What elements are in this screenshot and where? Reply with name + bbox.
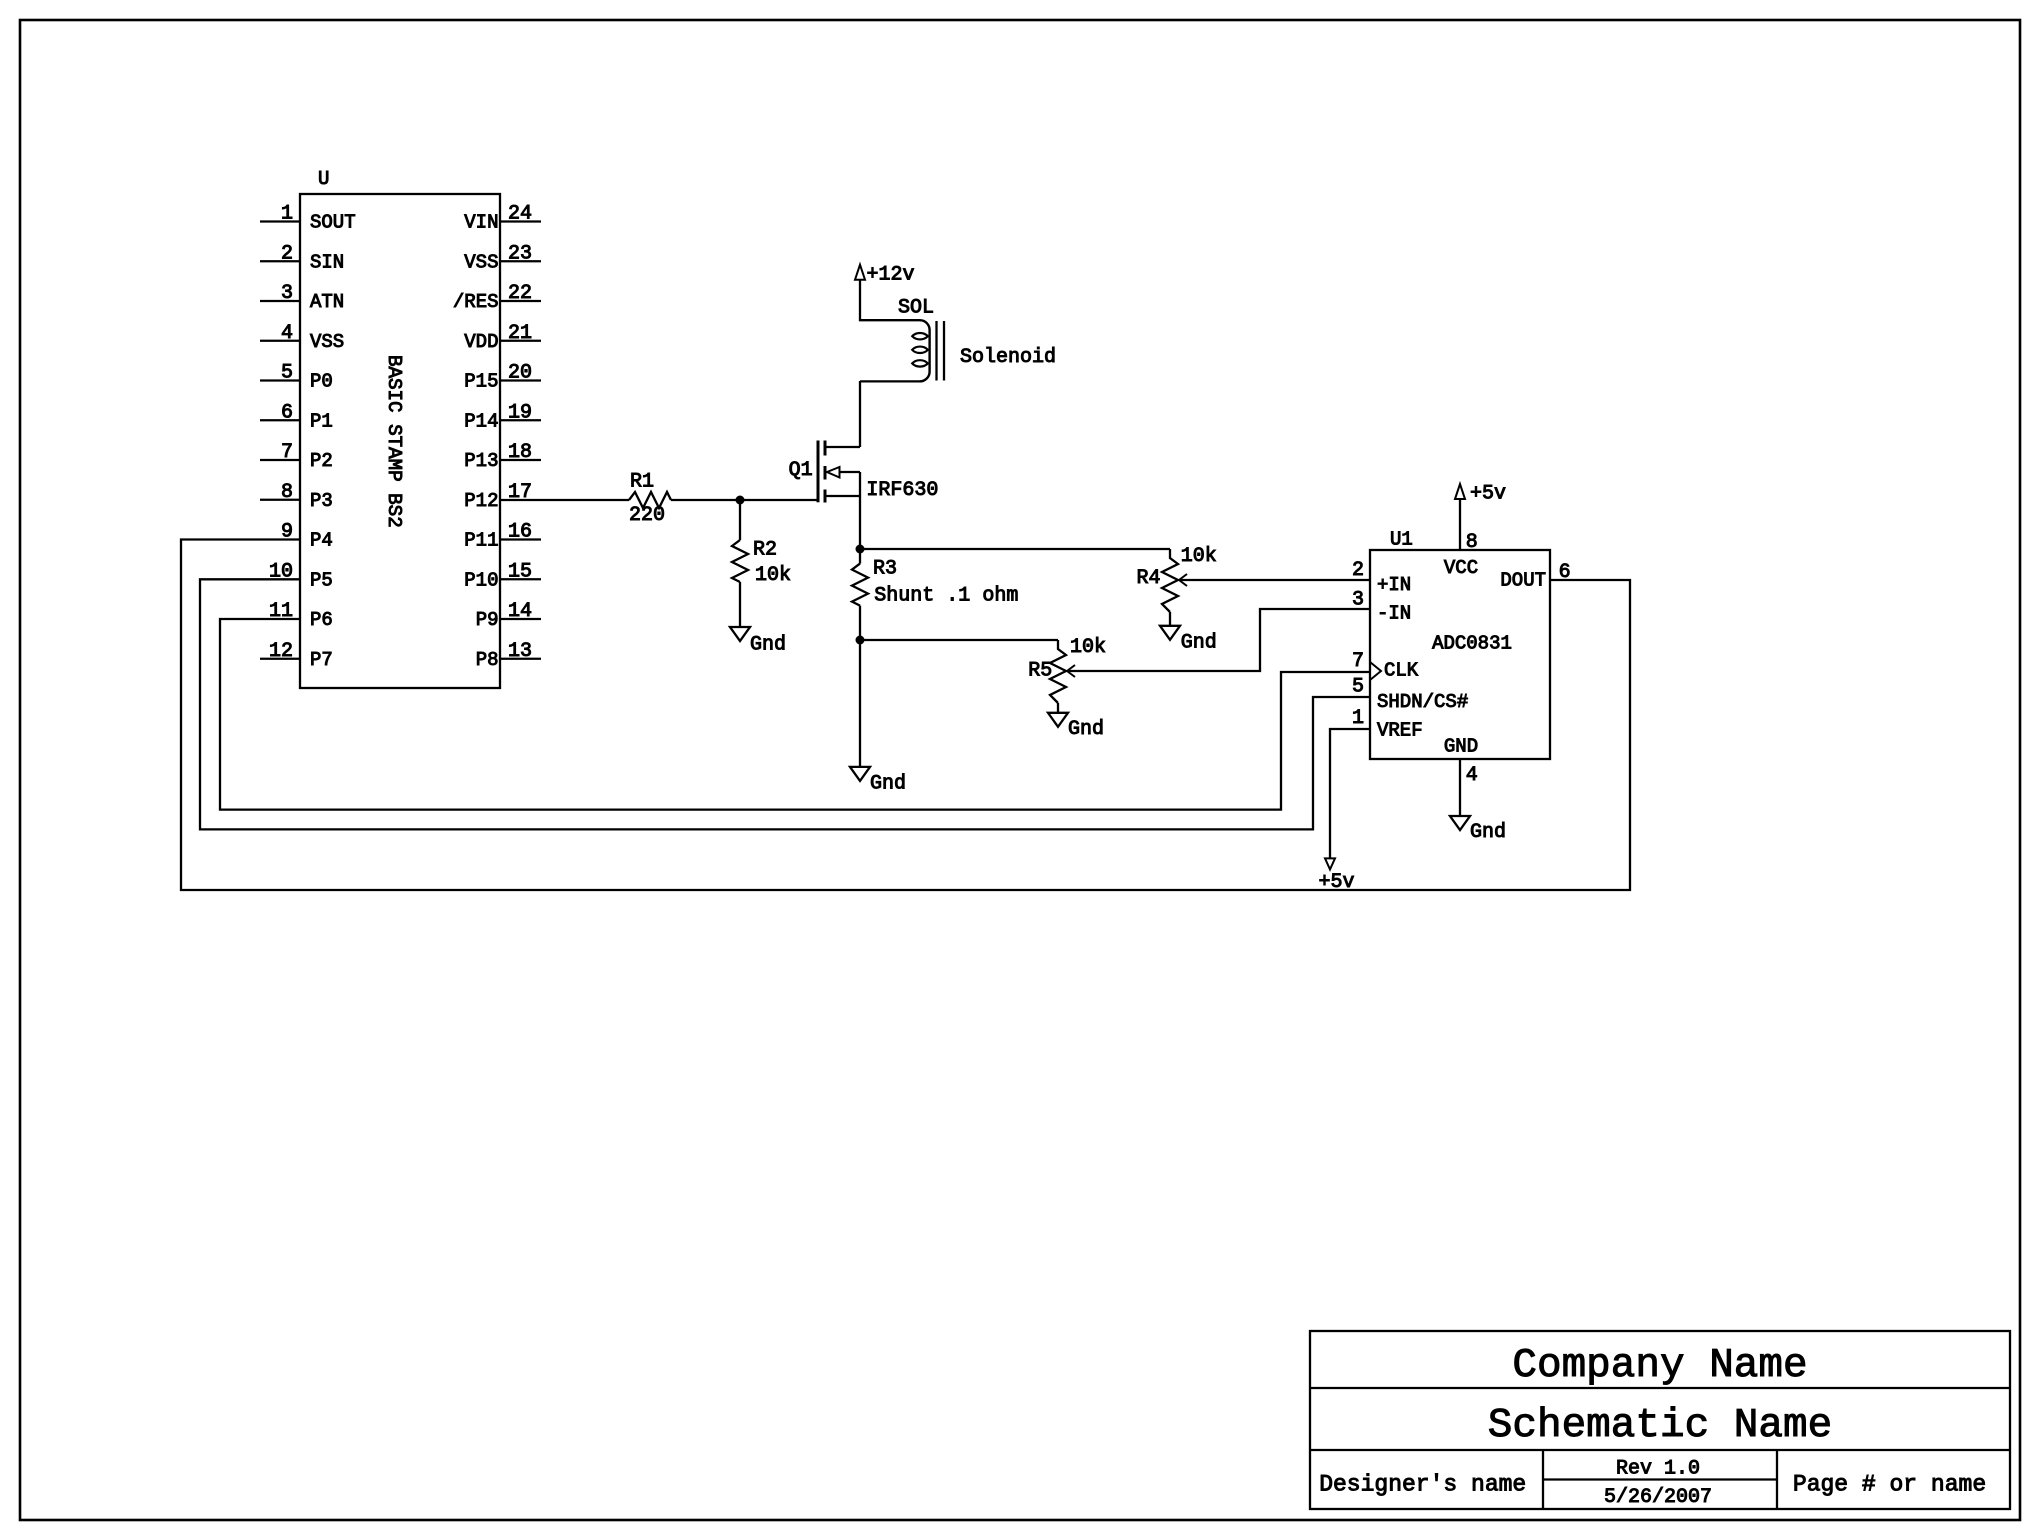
svg-text:19: 19 — [508, 401, 532, 424]
svg-text:+12v: +12v — [867, 263, 915, 286]
solenoid SOL coil — [898, 297, 944, 382]
ground (R5) — [1048, 713, 1104, 741]
junction node gate/R2 — [736, 496, 745, 505]
svg-text:20: 20 — [508, 362, 532, 385]
svg-text:SHDN/CS#: SHDN/CS# — [1377, 691, 1468, 713]
svg-text:23: 23 — [508, 242, 532, 265]
svg-text:Rev 1.0: Rev 1.0 — [1616, 1457, 1700, 1480]
svg-text:7: 7 — [281, 441, 293, 464]
svg-text:18: 18 — [508, 441, 532, 464]
svg-text:VIN: VIN — [464, 212, 498, 234]
U pin 22 /RES — [453, 282, 541, 313]
svg-text:P13: P13 — [464, 450, 498, 472]
U pin 6 P1 — [260, 401, 333, 432]
U pin 3 ATN — [260, 282, 344, 313]
svg-text:DOUT: DOUT — [1500, 570, 1546, 592]
svg-text:Designer's name: Designer's name — [1319, 1471, 1526, 1497]
wire source down to shunt — [859, 472, 861, 549]
svg-text:R3: R3 — [873, 557, 897, 580]
svg-text:10k: 10k — [1181, 545, 1217, 568]
svg-text:Gnd: Gnd — [750, 633, 786, 656]
U pin 19 P14 — [464, 401, 541, 432]
svg-text:Schematic Name: Schematic Name — [1488, 1403, 1832, 1449]
svg-text:P10: P10 — [464, 569, 498, 591]
svg-text:P1: P1 — [310, 410, 333, 432]
svg-text:2: 2 — [1352, 559, 1364, 582]
ground (R2) — [730, 627, 786, 656]
wire drain up to solenoid — [859, 381, 861, 447]
svg-text:Gnd: Gnd — [1470, 821, 1506, 844]
junction node shunt bottom — [856, 636, 865, 645]
svg-text:P6: P6 — [310, 609, 333, 631]
svg-text:21: 21 — [508, 322, 532, 345]
svg-text:Solenoid: Solenoid — [960, 346, 1056, 369]
svg-text:12: 12 — [269, 640, 293, 663]
svg-text:P7: P7 — [310, 649, 333, 671]
op-amp U1 ADC0831 — [1370, 528, 1550, 759]
svg-text:5: 5 — [281, 362, 293, 385]
svg-text:R2: R2 — [753, 539, 777, 562]
U pin 15 P10 — [464, 560, 541, 591]
svg-text:R4: R4 — [1137, 567, 1161, 590]
junction node shunt top — [856, 545, 865, 554]
svg-text:4: 4 — [281, 322, 293, 345]
svg-text:U1: U1 — [1390, 528, 1413, 550]
svg-text:15: 15 — [508, 560, 532, 583]
svg-text:P14: P14 — [464, 410, 498, 432]
svg-text:+IN: +IN — [1377, 574, 1411, 596]
svg-text:3: 3 — [1352, 588, 1364, 611]
svg-text:-IN: -IN — [1377, 603, 1411, 625]
svg-text:Q1: Q1 — [789, 459, 813, 482]
svg-text:Gnd: Gnd — [1068, 718, 1104, 741]
wire R5 wiper to U1 -IN — [1067, 609, 1370, 671]
svg-text:VSS: VSS — [310, 331, 344, 353]
ground (R4) — [1160, 626, 1217, 655]
svg-text:P8: P8 — [476, 649, 499, 671]
U pin 21 VDD — [464, 322, 541, 353]
svg-text:10k: 10k — [755, 564, 791, 587]
U pin 5 P0 — [260, 362, 333, 393]
U pin 17 P12 — [464, 481, 532, 512]
resistor R2 — [732, 539, 777, 583]
resistor R3 shunt — [852, 557, 897, 605]
wire +5v to VCC pin 8 — [1459, 499, 1461, 550]
wire shunt top to R4 — [860, 548, 1170, 550]
svg-text:Gnd: Gnd — [870, 772, 906, 795]
power +5v (VCC) — [1455, 483, 1506, 506]
svg-text:VSS: VSS — [464, 251, 498, 273]
svg-text:4: 4 — [1466, 764, 1478, 787]
svg-text:5/26/2007: 5/26/2007 — [1604, 1486, 1712, 1509]
U pin 16 P11 — [464, 521, 541, 552]
U pin 8 P3 — [260, 481, 333, 512]
wire P12 pin17 to R1 — [500, 499, 629, 501]
svg-text:Company Name: Company Name — [1512, 1343, 1807, 1389]
svg-text:P9: P9 — [476, 609, 499, 631]
svg-text:10k: 10k — [1070, 636, 1106, 659]
svg-text:13: 13 — [508, 640, 532, 663]
U pin 20 P15 — [464, 362, 541, 393]
wire R1 to Q1 gate — [671, 499, 818, 501]
svg-text:P4: P4 — [310, 530, 333, 552]
U pin 14 P9 — [476, 600, 541, 631]
svg-text:Gnd: Gnd — [1181, 631, 1217, 654]
svg-text:Page # or name: Page # or name — [1793, 1472, 1986, 1498]
svg-text:ATN: ATN — [310, 291, 344, 313]
svg-text:16: 16 — [508, 521, 532, 544]
svg-text:R1: R1 — [630, 471, 654, 494]
svg-text:ADC0831: ADC0831 — [1432, 633, 1512, 655]
svg-text:IRF630: IRF630 — [866, 479, 938, 502]
svg-text:SIN: SIN — [310, 251, 344, 273]
power +12v — [855, 263, 915, 286]
wire GND pin 4 to ground — [1459, 759, 1461, 816]
svg-text:6: 6 — [281, 401, 293, 424]
wire CLK pin 7 to P6 pin 11 — [220, 619, 1370, 810]
svg-text:8: 8 — [281, 481, 293, 504]
U pin 24 VIN — [464, 203, 541, 234]
potentiometer R5 — [1028, 640, 1075, 703]
wire R2 to ground — [739, 582, 741, 627]
svg-text:24: 24 — [508, 203, 532, 226]
svg-text:1: 1 — [1352, 707, 1364, 730]
svg-text:3: 3 — [281, 282, 293, 305]
U pin 12 P7 — [260, 640, 333, 671]
title block — [1310, 1331, 2010, 1509]
wire solenoid to drain — [860, 380, 921, 382]
svg-text:VDD: VDD — [464, 331, 498, 353]
wire +12v to solenoid — [860, 280, 921, 320]
U pin 9 P4 — [281, 521, 333, 552]
svg-text:220: 220 — [629, 504, 665, 527]
wire shunt bottom to R5 — [860, 639, 1058, 641]
U pin 10 P5 — [269, 560, 333, 591]
svg-text:P12: P12 — [464, 490, 498, 512]
wire R4 wiper to U1 +IN — [1179, 579, 1370, 581]
svg-text:CLK: CLK — [1384, 660, 1419, 682]
svg-text:P0: P0 — [310, 371, 333, 393]
svg-text:P3: P3 — [310, 490, 333, 512]
svg-text:14: 14 — [508, 600, 532, 623]
svg-text:P11: P11 — [464, 530, 498, 552]
svg-text:VCC: VCC — [1444, 557, 1478, 579]
U pin 4 VSS — [260, 322, 344, 353]
svg-text:8: 8 — [1466, 531, 1478, 554]
wire SHDN/CS# pin 5 to P5 pin 10 — [200, 579, 1370, 829]
svg-text:+5v: +5v — [1470, 483, 1506, 506]
svg-text:GND: GND — [1444, 735, 1478, 757]
svg-text:1: 1 — [281, 203, 293, 226]
wire to R3 — [859, 549, 861, 564]
U pin 1 SOUT — [260, 203, 356, 234]
svg-text:7: 7 — [1352, 650, 1364, 673]
svg-text:/RES: /RES — [453, 291, 499, 313]
power +5v (VREF) — [1319, 858, 1355, 894]
transistor Q1 IRF630 N-MOSFET — [789, 441, 860, 503]
svg-text:R5: R5 — [1028, 660, 1052, 683]
svg-text:5: 5 — [1352, 675, 1364, 698]
wire R5 to ground — [1057, 703, 1059, 713]
svg-text:Shunt .1 ohm: Shunt .1 ohm — [874, 585, 1018, 608]
wire R4 to ground — [1169, 612, 1171, 626]
wire VREF pin 1 to +5v — [1330, 729, 1370, 858]
U pin 13 P8 — [476, 640, 541, 671]
svg-text:22: 22 — [508, 282, 532, 305]
wire junction to R2 — [739, 500, 741, 540]
U pin 23 VSS — [464, 242, 541, 273]
ground (U1) — [1450, 816, 1506, 844]
svg-text:U: U — [318, 168, 329, 190]
U pin 18 P13 — [464, 441, 541, 472]
U pin 2 SIN — [260, 242, 344, 273]
svg-text:SOUT: SOUT — [310, 212, 356, 234]
wire R3 to ground — [859, 606, 861, 767]
wire DOUT pin 6 to P4 pin 9 — [181, 540, 1630, 891]
svg-text:P5: P5 — [310, 569, 333, 591]
svg-text:P2: P2 — [310, 450, 333, 472]
svg-text:VREF: VREF — [1377, 720, 1423, 742]
svg-text:BASIC STAMP BS2: BASIC STAMP BS2 — [383, 355, 405, 528]
U pin 11 P6 — [269, 600, 333, 631]
potentiometer R4 — [1137, 549, 1188, 612]
svg-text:P15: P15 — [464, 371, 498, 393]
resistor R1 — [629, 471, 671, 509]
svg-text:SOL: SOL — [898, 297, 934, 320]
IC U BASIC STAMP BS2 — [300, 168, 500, 688]
svg-text:2: 2 — [281, 242, 293, 265]
U pin 7 P2 — [260, 441, 333, 472]
ground (R3) — [850, 767, 906, 795]
